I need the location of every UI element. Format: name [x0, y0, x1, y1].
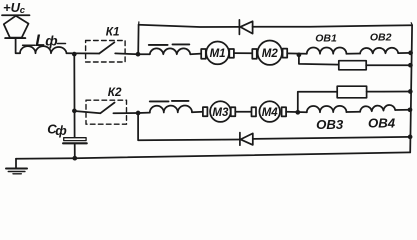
diode D2 triangle — [241, 133, 253, 145]
right bus — [410, 25, 412, 152]
node OB2-bus — [408, 51, 413, 56]
tick at top-right bus corner — [411, 23, 412, 25]
wire Lf to K1 — [67, 52, 100, 54]
svg-text:К2: К2 — [108, 86, 122, 99]
reactor L1 winding — [150, 48, 191, 54]
field winding OB3 — [307, 106, 347, 112]
top bus right of diode D1 — [253, 25, 413, 27]
wire M4 to node D — [286, 111, 307, 114]
ground stem — [15, 159, 17, 169]
capacitor Cf top plate — [64, 138, 86, 141]
reactor L2 core bars — [150, 100, 169, 102]
wire M1 to M2 — [234, 52, 252, 54]
node C — [136, 111, 141, 116]
svg-text:К1: К1 — [106, 26, 120, 39]
wire OB1 to OB2 — [346, 53, 360, 55]
top bus left of diode D1 — [139, 25, 240, 27]
wire tap to K2 — [74, 111, 100, 113]
node K2 tap — [72, 109, 77, 114]
node A — [136, 52, 141, 57]
svg-text:М2: М2 — [262, 48, 279, 60]
wire L2 to M3 — [192, 111, 203, 114]
wire node A up to top bus — [137, 25, 139, 54]
node D — [295, 110, 300, 115]
svg-text:ф: ф — [55, 123, 67, 138]
wire pantograph to Lf — [16, 39, 20, 54]
motor M3 right brush — [231, 107, 236, 116]
wire Cf to bottom bus — [74, 144, 76, 158]
wire L1 to M1 — [190, 53, 201, 56]
svg-text:+U: +U — [3, 0, 21, 15]
node return-bus — [408, 135, 413, 140]
wire node A to reactor L1 — [138, 53, 150, 55]
wire OB2 to right bus — [398, 52, 410, 54]
diode D1 triangle — [240, 21, 252, 33]
wire node C to reactor L2 — [138, 112, 150, 114]
wire OB3 to OB4 — [346, 111, 360, 113]
node B — [297, 53, 302, 58]
wire M3 to M4 — [235, 111, 251, 113]
diode D1 cathode bar — [238, 20, 240, 35]
wire R1 to right bus — [366, 64, 410, 66]
inductor Lf — [20, 46, 67, 53]
wire OB4 to right bus — [395, 109, 410, 111]
motor M2 left brush — [252, 49, 256, 59]
field winding OB2 — [360, 48, 398, 54]
motor M2 right brush — [283, 49, 288, 58]
contactor K2 dashed box — [86, 100, 127, 124]
contactor K1 dashed box — [86, 41, 126, 63]
pantograph pentagon — [4, 16, 29, 38]
wire M2 to node B — [287, 52, 307, 54]
svg-text:ОВ4: ОВ4 — [368, 116, 396, 131]
motor M3 left brush — [203, 107, 208, 116]
field winding OB1 — [307, 47, 347, 53]
reactor L2 winding — [150, 106, 192, 113]
label Cf — [47, 122, 67, 138]
reactor L1 core bars — [149, 44, 168, 46]
switch K1 right contact wire to node A — [115, 52, 138, 55]
motor M4 — [259, 101, 280, 122]
motor M3 — [210, 101, 231, 122]
node after Lf — [72, 52, 77, 57]
wire node C down to return line — [138, 113, 240, 140]
node R1-bus — [408, 63, 413, 68]
node R2-bus — [408, 89, 413, 94]
diode D2 cathode bar — [239, 133, 241, 146]
label Lf with side dashes — [23, 44, 35, 46]
motor M4 right brush — [282, 107, 287, 116]
switch K1 blade — [99, 42, 114, 53]
wire node D up to resistor R2 — [298, 92, 337, 113]
svg-text:ОВ2: ОВ2 — [370, 32, 392, 44]
switch K2 right contact wire to node C — [113, 112, 138, 114]
switch K2 blade — [100, 103, 114, 114]
return line right of diode D2 — [253, 137, 410, 139]
ground bars — [6, 168, 27, 170]
wire node down to K2 tap and capacitor — [73, 54, 75, 138]
resistor R1 — [339, 61, 366, 70]
wire R2 to right bus — [367, 91, 411, 93]
node OB4-bus — [408, 107, 413, 112]
motor M1 right brush — [229, 49, 234, 58]
label +Uc — [3, 0, 26, 16]
capacitor Cf bottom plate — [63, 142, 87, 144]
pantograph top bar — [2, 14, 30, 16]
motor M4 left brush — [252, 107, 257, 116]
motor M1 — [206, 42, 229, 65]
svg-text:М1: М1 — [210, 48, 226, 60]
node Cf-bus — [72, 156, 77, 161]
field winding OB4 — [360, 105, 395, 112]
motor M2 — [258, 41, 282, 65]
svg-text:ОВ3: ОВ3 — [316, 117, 344, 132]
pantograph bottom bar — [5, 37, 25, 39]
tick at top-left bus corner — [138, 22, 140, 25]
svg-text:ОВ1: ОВ1 — [315, 33, 337, 45]
svg-text:М4: М4 — [262, 107, 279, 119]
resistor R2 — [337, 86, 366, 98]
svg-text:М3: М3 — [212, 107, 229, 119]
bottom bus — [16, 152, 410, 158]
wire node B down to resistor R1 — [299, 55, 339, 65]
motor M1 left brush — [201, 49, 206, 59]
